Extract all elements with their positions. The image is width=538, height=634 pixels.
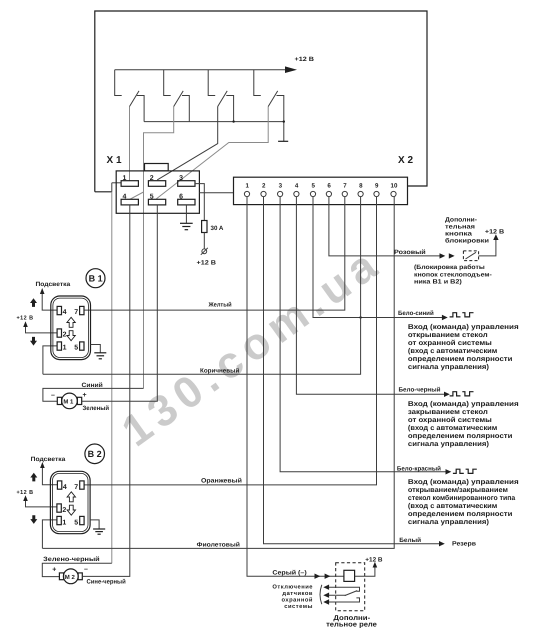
- pink label and arrows: [394, 249, 455, 259]
- B1 pin 7: [80, 306, 84, 314]
- svg-text:9: 9: [375, 183, 379, 190]
- svg-text:–: –: [84, 566, 88, 573]
- pin 5: [310, 191, 315, 196]
- B2 pin 1: [57, 516, 61, 524]
- svg-text:стекол комбинированного типа: стекол комбинированного типа: [408, 494, 515, 502]
- relay coil: [344, 570, 355, 581]
- svg-text:открыванием стекол: открыванием стекол: [408, 332, 488, 339]
- svg-text:Коричневый: Коричневый: [200, 367, 239, 374]
- pin 6: [178, 199, 195, 205]
- control unit box: [95, 11, 427, 192]
- svg-text:Бело-черный: Бело-черный: [399, 386, 441, 393]
- B2 switch button: [31, 444, 105, 464]
- pin 3: [278, 191, 283, 196]
- svg-text:3: 3: [179, 175, 183, 182]
- svg-text:(вход с автоматическим: (вход с автоматическим: [408, 424, 497, 432]
- text add lock button: [445, 217, 489, 245]
- pin 4: [121, 199, 138, 205]
- ground (X1 pin6): [180, 205, 193, 230]
- svg-text:Подсветка: Подсветка: [31, 456, 66, 463]
- motor M1: [51, 392, 87, 409]
- text disable sensors: [272, 583, 313, 610]
- wire S4 arm to X1 pin5: [156, 107, 268, 199]
- +12V terminal: [197, 248, 217, 267]
- junction dot white-blue at pin8 column: [359, 316, 361, 318]
- svg-text:закрыванием стекол: закрыванием стекол: [408, 409, 488, 416]
- svg-text:определением полярности: определением полярности: [408, 356, 513, 363]
- svg-text:1: 1: [62, 519, 66, 526]
- svg-text:Фиолетовый: Фиолетовый: [197, 541, 240, 548]
- wire X2 pin3 white-red: [280, 197, 446, 472]
- wire orange B2 pin7 to X2 pin9: [84, 197, 376, 485]
- svg-text:Оранжевый: Оранжевый: [201, 477, 242, 484]
- text input open: [408, 323, 519, 371]
- svg-text:30 A: 30 A: [211, 225, 224, 232]
- svg-text:Желтый: Желтый: [208, 301, 232, 308]
- svg-text:от охранной системы: от охранной системы: [408, 339, 492, 347]
- wire blue-black M2 to X1 pin4: [82, 205, 130, 586]
- svg-text:5: 5: [74, 345, 78, 352]
- wire X2 pin5 white-blue: [313, 197, 443, 318]
- ground (B1 pin5): [91, 345, 107, 359]
- wire S1 arm to X1 pin1: [129, 107, 131, 181]
- lock button (dashed): [463, 251, 478, 261]
- grey label arrows: [272, 569, 330, 579]
- svg-text:Резерв: Резерв: [452, 541, 476, 548]
- svg-text:7: 7: [74, 309, 78, 316]
- svg-text:(вход с автоматическим: (вход с автоматическим: [408, 347, 497, 355]
- wire fuse to +12V: [203, 233, 205, 249]
- pin 9: [374, 191, 379, 196]
- svg-text:1: 1: [123, 175, 127, 182]
- wire yellow B1 pin7 to X2 pin7: [84, 197, 345, 311]
- svg-text:Подсветка: Подсветка: [36, 281, 71, 288]
- svg-text:Вход (команда) управления: Вход (команда) управления: [408, 323, 519, 331]
- svg-text:5: 5: [74, 519, 78, 526]
- pin 3: [178, 181, 195, 187]
- svg-text:7: 7: [74, 484, 78, 491]
- B2 up arrow hollow: [67, 492, 75, 502]
- white-black label arrow pulse: [399, 386, 474, 397]
- pin 1: [244, 191, 249, 196]
- svg-text:7: 7: [343, 183, 347, 190]
- contacts ground bus: [144, 120, 285, 122]
- svg-text:(вход с автоматическим: (вход с автоматическим: [408, 502, 497, 510]
- svg-text:тельная: тельная: [445, 224, 475, 231]
- svg-text:Бело-красный: Бело-красный: [397, 466, 441, 473]
- motor M2: [52, 566, 88, 584]
- svg-text:2: 2: [63, 332, 67, 339]
- pin 7: [342, 191, 347, 196]
- B2 pin 7: [80, 481, 84, 489]
- B2 pin2 wire with arrow: [23, 495, 57, 507]
- svg-text:4: 4: [123, 193, 127, 200]
- wire button to +12V: [479, 229, 505, 256]
- svg-text:+: +: [83, 392, 87, 399]
- wire X1 pin3 to fuse: [195, 184, 204, 221]
- B1 down arrow hollow: [67, 331, 75, 341]
- svg-text:Дополни-: Дополни-: [445, 217, 477, 224]
- B2 pin 2: [57, 504, 61, 512]
- wire X2 pin1 grey to relay: [247, 197, 344, 577]
- wire brown X2 pin8 to B1 pin1: [43, 197, 361, 375]
- svg-text:+12 В: +12 В: [365, 556, 383, 563]
- B1 switch button: [36, 269, 106, 288]
- svg-text:5: 5: [312, 183, 316, 190]
- svg-text:4: 4: [63, 309, 67, 316]
- svg-text:М 1: М 1: [63, 399, 74, 406]
- text additional relay: [326, 615, 377, 628]
- svg-text:Отключение: Отключение: [272, 583, 313, 590]
- wire unit to green-black (long left vertical): [111, 192, 113, 563]
- B1 pin2 wire with arrow: [23, 321, 57, 333]
- svg-text:блокировки: блокировки: [445, 238, 489, 245]
- relay contact S3: [208, 70, 233, 122]
- svg-text:Серый (–): Серый (–): [272, 569, 306, 576]
- svg-text:Розовый: Розовый: [394, 249, 426, 256]
- ground (B2 pin5): [90, 520, 105, 534]
- svg-text:2: 2: [150, 175, 154, 182]
- svg-text:+: +: [52, 567, 56, 574]
- svg-text:тельное реле: тельное реле: [326, 621, 377, 628]
- svg-text:–: –: [51, 392, 55, 399]
- additional relay dashed box: [336, 563, 365, 611]
- pin 4: [294, 191, 299, 196]
- B1 down arrow bold: [30, 337, 37, 346]
- svg-text:кнопок стеклоподъем-: кнопок стеклоподъем-: [414, 271, 492, 278]
- wire violet X2 pin10 to B2 pin1: [42, 197, 394, 549]
- B1 pin 1: [57, 342, 61, 350]
- wire X2 pin2 white reserve: [264, 197, 440, 544]
- connector X2: [234, 155, 414, 205]
- text lock note: [414, 264, 492, 286]
- svg-text:1: 1: [63, 345, 67, 352]
- relay contact S1: [115, 70, 144, 122]
- svg-text:Зелено-черный: Зелено-черный: [43, 556, 100, 563]
- svg-text:X 1: X 1: [107, 155, 122, 166]
- pin 2: [148, 181, 165, 187]
- svg-text:сигнала управления): сигнала управления): [408, 518, 489, 526]
- svg-text:Сине-черный: Сине-черный: [87, 579, 126, 586]
- B2 down arrow bold: [30, 515, 37, 524]
- svg-text:6: 6: [327, 183, 331, 190]
- svg-text:2: 2: [262, 183, 266, 190]
- text input combo: [408, 478, 519, 526]
- svg-text:Бело-синий: Бело-синий: [398, 310, 434, 317]
- svg-text:Вход (команда) управления: Вход (команда) управления: [408, 478, 519, 486]
- pin 8: [358, 191, 363, 196]
- svg-text:от охранной системы: от охранной системы: [408, 416, 492, 424]
- svg-text:системы: системы: [284, 604, 313, 610]
- svg-text:10: 10: [391, 183, 398, 190]
- svg-text:4: 4: [63, 484, 67, 491]
- wire coil to +12V: [355, 556, 383, 576]
- svg-text:+12 В: +12 В: [485, 229, 505, 236]
- fuse 30A: [202, 221, 224, 233]
- contact arrows out: [320, 585, 329, 605]
- svg-text:кнопка: кнопка: [445, 231, 473, 238]
- svg-text:М 2: М 2: [65, 574, 76, 581]
- svg-text:5: 5: [150, 193, 154, 200]
- B1 body: [51, 296, 91, 360]
- B1 pin 5: [80, 342, 84, 350]
- connector X1: [107, 155, 200, 213]
- B2 pin 5: [80, 516, 84, 524]
- wire S2 arm to X1 pin4 and down: [130, 107, 174, 389]
- svg-text:+12 В: +12 В: [197, 260, 217, 267]
- relay contact: [328, 587, 360, 602]
- +12V bus: [115, 56, 315, 73]
- pin 2: [261, 191, 266, 196]
- ground (switch bus): [278, 140, 288, 142]
- svg-text:охранной: охранной: [282, 596, 314, 603]
- wire X1 to X2 shell: [199, 192, 233, 194]
- pin 5: [148, 199, 165, 205]
- svg-text:определением полярности: определением полярности: [408, 433, 513, 440]
- wire X2 pin6 pink: [329, 197, 440, 256]
- svg-text:X 2: X 2: [398, 155, 413, 166]
- svg-text:ника В1 и В2): ника В1 и В2): [414, 279, 462, 286]
- svg-text:сигнала управления): сигнала управления): [408, 363, 489, 371]
- B2 body: [50, 471, 90, 533]
- svg-text:6: 6: [179, 193, 183, 200]
- svg-text:+12 В: +12 В: [17, 314, 34, 321]
- watermark 130.com.ua: [113, 241, 386, 456]
- wire X2 pin4 white-black: [296, 197, 444, 395]
- svg-text:3: 3: [279, 183, 283, 190]
- svg-text:Вход (команда) управления: Вход (команда) управления: [408, 400, 519, 408]
- svg-text:Зеленый: Зеленый: [83, 405, 110, 412]
- wire green M1 to X1 pin5: [82, 205, 158, 412]
- svg-text:(Блокировка работы: (Блокировка работы: [414, 264, 485, 271]
- pin 6: [326, 191, 331, 196]
- svg-text:Синий: Синий: [82, 382, 104, 389]
- relay contact S4: [254, 70, 284, 142]
- text input close: [408, 400, 519, 448]
- svg-text:1: 1: [246, 183, 250, 190]
- wire B2 pin1: [42, 520, 57, 549]
- relay contact S2: [164, 70, 190, 122]
- white-red label arrow pulse: [397, 466, 477, 475]
- svg-text:2: 2: [62, 507, 66, 514]
- svg-text:определением полярности: определением полярности: [408, 511, 513, 518]
- svg-text:открыванием/закрыванием: открыванием/закрыванием: [408, 486, 508, 494]
- pin 10: [391, 191, 396, 196]
- svg-text:В 1: В 1: [89, 274, 103, 284]
- wire B1 pin1: [43, 346, 57, 374]
- B2 pin 4: [57, 481, 61, 489]
- B2 illumination arrow: [40, 462, 57, 485]
- svg-text:В 2: В 2: [88, 449, 102, 459]
- svg-text:Белый: Белый: [399, 537, 421, 544]
- svg-text:8: 8: [359, 183, 363, 190]
- B1 illumination arrow: [40, 288, 57, 310]
- B1 pin 4: [57, 306, 61, 314]
- svg-text:датчиков: датчиков: [282, 591, 313, 597]
- wire green-black unit to M2: [42, 556, 112, 577]
- svg-text:4: 4: [295, 183, 299, 190]
- wire blue M1 to pin4 column: [43, 382, 144, 401]
- B1 up arrow hollow: [67, 317, 75, 327]
- pin 1: [121, 181, 138, 187]
- white label arrow reserve: [399, 537, 476, 548]
- B1 pin 2: [57, 329, 61, 337]
- white-blue label arrow pulse: [398, 310, 474, 320]
- wire S3 arm to X1 pin2: [157, 107, 218, 180]
- svg-text:+12 В: +12 В: [295, 56, 315, 63]
- B2 down arrow hollow: [67, 505, 75, 515]
- B1 up arrow bold: [30, 298, 37, 307]
- svg-text:+12 В: +12 В: [17, 489, 34, 496]
- svg-text:сигнала управления): сигнала управления): [408, 440, 489, 448]
- B2 up arrow bold: [30, 473, 37, 482]
- node junction at X1 pin1 feed: [112, 183, 122, 192]
